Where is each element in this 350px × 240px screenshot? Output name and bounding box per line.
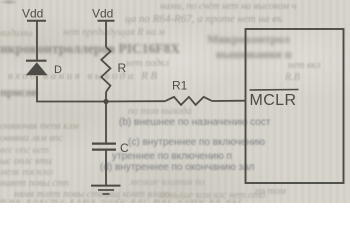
node: junction of R, diode branch, R1, C bbox=[103, 99, 108, 104]
svg-text:Vdd: Vdd bbox=[22, 7, 43, 21]
svg-text:C: C bbox=[120, 141, 129, 155]
resistor R bbox=[101, 47, 126, 92]
svg-text:R: R bbox=[118, 61, 127, 75]
wire: diode anode down to corner, then right to junction bbox=[37, 76, 106, 102]
power rail Vdd (right) bbox=[92, 7, 115, 21]
bleed-through text bbox=[160, 1, 296, 12]
resistor R1 bbox=[165, 79, 212, 105]
IC U1 (PIC microcontroller body) bbox=[246, 29, 344, 183]
capacitor C bbox=[92, 141, 129, 155]
wire: capacitor C to ground bbox=[105, 150, 107, 185]
bottom-left bleed block bbox=[0, 121, 79, 132]
pin label MCLR (active low) bbox=[250, 90, 299, 110]
wire: right Vdd to resistor R bbox=[105, 21, 107, 47]
wire: left Vdd to diode cathode bbox=[36, 21, 38, 60]
svg-text:D: D bbox=[54, 64, 62, 76]
power rail Vdd (left) bbox=[22, 7, 46, 21]
wire: junction to R1 bbox=[106, 100, 165, 102]
svg-text:R1: R1 bbox=[172, 79, 188, 93]
svg-text:Vdd: Vdd bbox=[92, 7, 113, 21]
wire: junction down to capacitor C bbox=[105, 102, 107, 144]
wire: R1 to MCLR pin of IC bbox=[212, 100, 246, 102]
diode D bbox=[26, 61, 62, 76]
ground bbox=[91, 186, 121, 194]
svg-text:MCLR: MCLR bbox=[250, 92, 297, 109]
wire: resistor R to junction bbox=[105, 92, 107, 102]
